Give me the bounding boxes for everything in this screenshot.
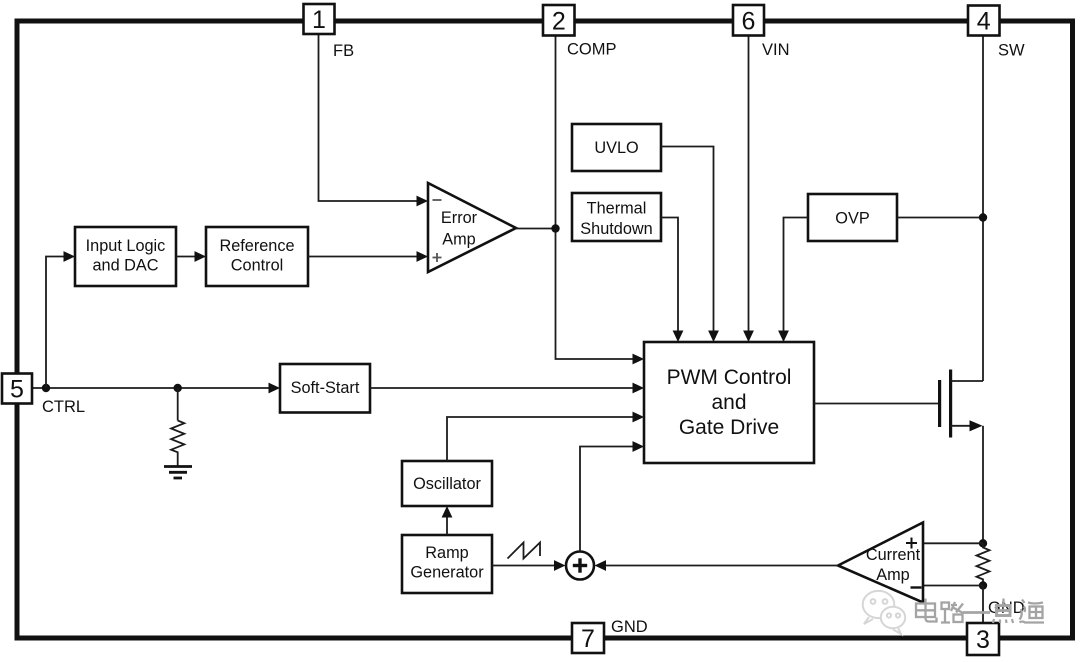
pin 4 box <box>968 6 1000 36</box>
minus sign (error amp) <box>433 199 442 201</box>
wire Reference Control to error amp plus <box>308 256 418 258</box>
op-amp Error Amp <box>428 183 516 272</box>
pin 5 box <box>2 374 32 404</box>
wire FB arrow into error amp minus <box>417 196 429 207</box>
svg-text:VIN: VIN <box>762 41 790 59</box>
block PWM Control and Gate Drive <box>644 342 814 463</box>
wire UVLO to PWM top <box>661 147 714 333</box>
wire sense bottom to Current Amp minus <box>923 585 983 587</box>
source wire with arrow <box>951 425 972 427</box>
arrow VIN into PWM top <box>743 331 754 343</box>
resistor R1 (CTRL pulldown) <box>171 421 184 467</box>
wire error amp output to COMP line <box>516 228 556 230</box>
wire from node down to resistor R1 <box>177 388 179 421</box>
svg-text:UVLO: UVLO <box>594 139 638 157</box>
arrow into error amp plus <box>417 251 429 262</box>
svg-text:3: 3 <box>976 626 990 654</box>
wire from CTRL node up to Input Logic <box>46 257 65 389</box>
char lu 路 <box>942 603 950 610</box>
op-amp Current Amp <box>838 523 923 603</box>
svg-text:GND: GND <box>611 618 648 636</box>
block Oscillator <box>402 461 492 506</box>
arrow into Soft-Start <box>269 383 281 394</box>
char yi 一 <box>963 611 990 614</box>
arrow Soft-Start into PWM <box>633 383 645 394</box>
wire Ramp Generator to summing node <box>492 565 555 567</box>
svg-text:2: 2 <box>552 7 566 35</box>
wire PWM output to MOSFET gate <box>814 403 938 405</box>
svg-text:SW: SW <box>998 42 1025 60</box>
pin 7 box <box>572 623 604 653</box>
wire OVP left to PWM top <box>784 218 809 333</box>
wire FB vertical from pin 1 <box>319 34 419 201</box>
svg-text:Ramp: Ramp <box>425 544 468 562</box>
svg-text:Reference: Reference <box>219 237 294 255</box>
wire Ramp Generator up to Oscillator <box>446 516 448 535</box>
watermark wechat logo <box>863 591 906 634</box>
ground symbol <box>164 467 192 479</box>
arrow UVLO into PWM top <box>708 331 719 343</box>
wire SW from pin 4 down to MOSFET drain <box>982 36 984 382</box>
svg-text:PWM Control: PWM Control <box>667 366 792 389</box>
pin 1 box <box>304 4 335 34</box>
gate bar <box>938 380 941 427</box>
svg-text:Thermal: Thermal <box>587 200 647 218</box>
wire COMP vertical from pin 2 down and into PWM <box>556 36 635 359</box>
pin 2 box <box>543 5 575 36</box>
plus sign (current amp) <box>906 538 917 549</box>
node current sense bottom <box>979 581 987 589</box>
wire Current Amp output to summing node <box>605 565 838 567</box>
wire summing node up to PWM <box>580 447 634 552</box>
node OVP tap on SW line <box>979 213 987 221</box>
wire OVP right to SW line <box>897 217 983 219</box>
arrow Oscillator into PWM <box>633 412 645 423</box>
svg-text:and DAC: and DAC <box>92 257 158 275</box>
arrow summing into PWM <box>633 441 645 452</box>
arrow into Input Logic <box>64 251 76 262</box>
channel bar <box>949 370 952 438</box>
svg-text:4: 4 <box>977 8 991 36</box>
wire VIN from pin 6 down to PWM top <box>748 36 750 332</box>
svg-text:Gate Drive: Gate Drive <box>679 416 779 439</box>
svg-text:COMP: COMP <box>567 41 617 59</box>
svg-text:and: and <box>711 391 746 414</box>
resistor R2 (current sense) <box>977 543 990 585</box>
block Reference Control <box>206 227 308 286</box>
svg-text:7: 7 <box>581 625 595 653</box>
wire Thermal Shutdown to PWM top <box>661 218 678 333</box>
svg-text:Control: Control <box>231 257 284 275</box>
char dian 点 <box>995 599 1011 606</box>
svg-text:5: 5 <box>10 376 24 404</box>
arrow into Reference Control <box>195 251 207 262</box>
wire Soft-Start to PWM <box>370 387 634 389</box>
block OVP <box>808 194 897 241</box>
block Input Logic and DAC <box>75 227 176 286</box>
svg-text:CTRL: CTRL <box>42 398 85 416</box>
watermark text 电路一点通 (drawn strokes) <box>916 599 1044 624</box>
svg-text:Shutdown: Shutdown <box>580 220 652 238</box>
drain wire to SW line <box>951 380 983 382</box>
char tong 通 <box>1020 600 1045 623</box>
svg-text:Error: Error <box>441 209 478 227</box>
summing node (circle with plus) <box>566 552 594 580</box>
svg-text:OVP: OVP <box>835 210 869 228</box>
svg-text:6: 6 <box>742 7 756 35</box>
node CTRL resistor tap <box>174 384 182 392</box>
block Ramp Generator <box>402 535 492 593</box>
block Thermal Shutdown <box>572 193 661 241</box>
wire source down to sense node <box>982 426 984 544</box>
arrow Ramp into Oscillator <box>442 506 453 518</box>
node CTRL branch up <box>42 384 50 392</box>
svg-text:FB: FB <box>333 42 354 60</box>
pin 3 box <box>967 623 999 655</box>
minus sign (current amp) <box>911 586 922 588</box>
node error amp output on COMP line <box>551 224 559 232</box>
block UVLO <box>572 124 661 171</box>
wire CTRL from pin 5 to Soft-Start <box>32 387 270 389</box>
svg-text:Current: Current <box>866 546 921 564</box>
pin 6 box <box>733 5 764 36</box>
wire Input Logic to Reference Control <box>176 256 196 258</box>
plus sign (error amp) <box>433 253 442 262</box>
svg-text:Amp: Amp <box>442 231 475 249</box>
arrow OVP into PWM top <box>778 331 789 343</box>
svg-text:Generator: Generator <box>410 564 484 582</box>
ramp waveform symbol <box>508 543 541 559</box>
wire sense top to Current Amp plus <box>923 542 983 544</box>
node current sense top <box>979 539 987 547</box>
arrow Ramp into summing node <box>554 560 566 571</box>
wire Oscillator to PWM <box>447 417 634 461</box>
svg-text:1: 1 <box>312 6 326 34</box>
arrow Thermal into PWM top <box>673 331 684 343</box>
svg-text:Soft-Start: Soft-Start <box>291 379 360 397</box>
svg-text:Input Logic: Input Logic <box>86 237 166 255</box>
block Soft-Start <box>280 364 370 413</box>
svg-text:Oscillator: Oscillator <box>413 475 481 493</box>
arrow COMP into PWM <box>633 354 645 365</box>
arrow Current Amp into summing node <box>595 560 607 571</box>
char dian 电 <box>924 599 926 620</box>
svg-text:Amp: Amp <box>876 566 909 584</box>
wire sense bottom down to pin 3 <box>982 586 984 624</box>
